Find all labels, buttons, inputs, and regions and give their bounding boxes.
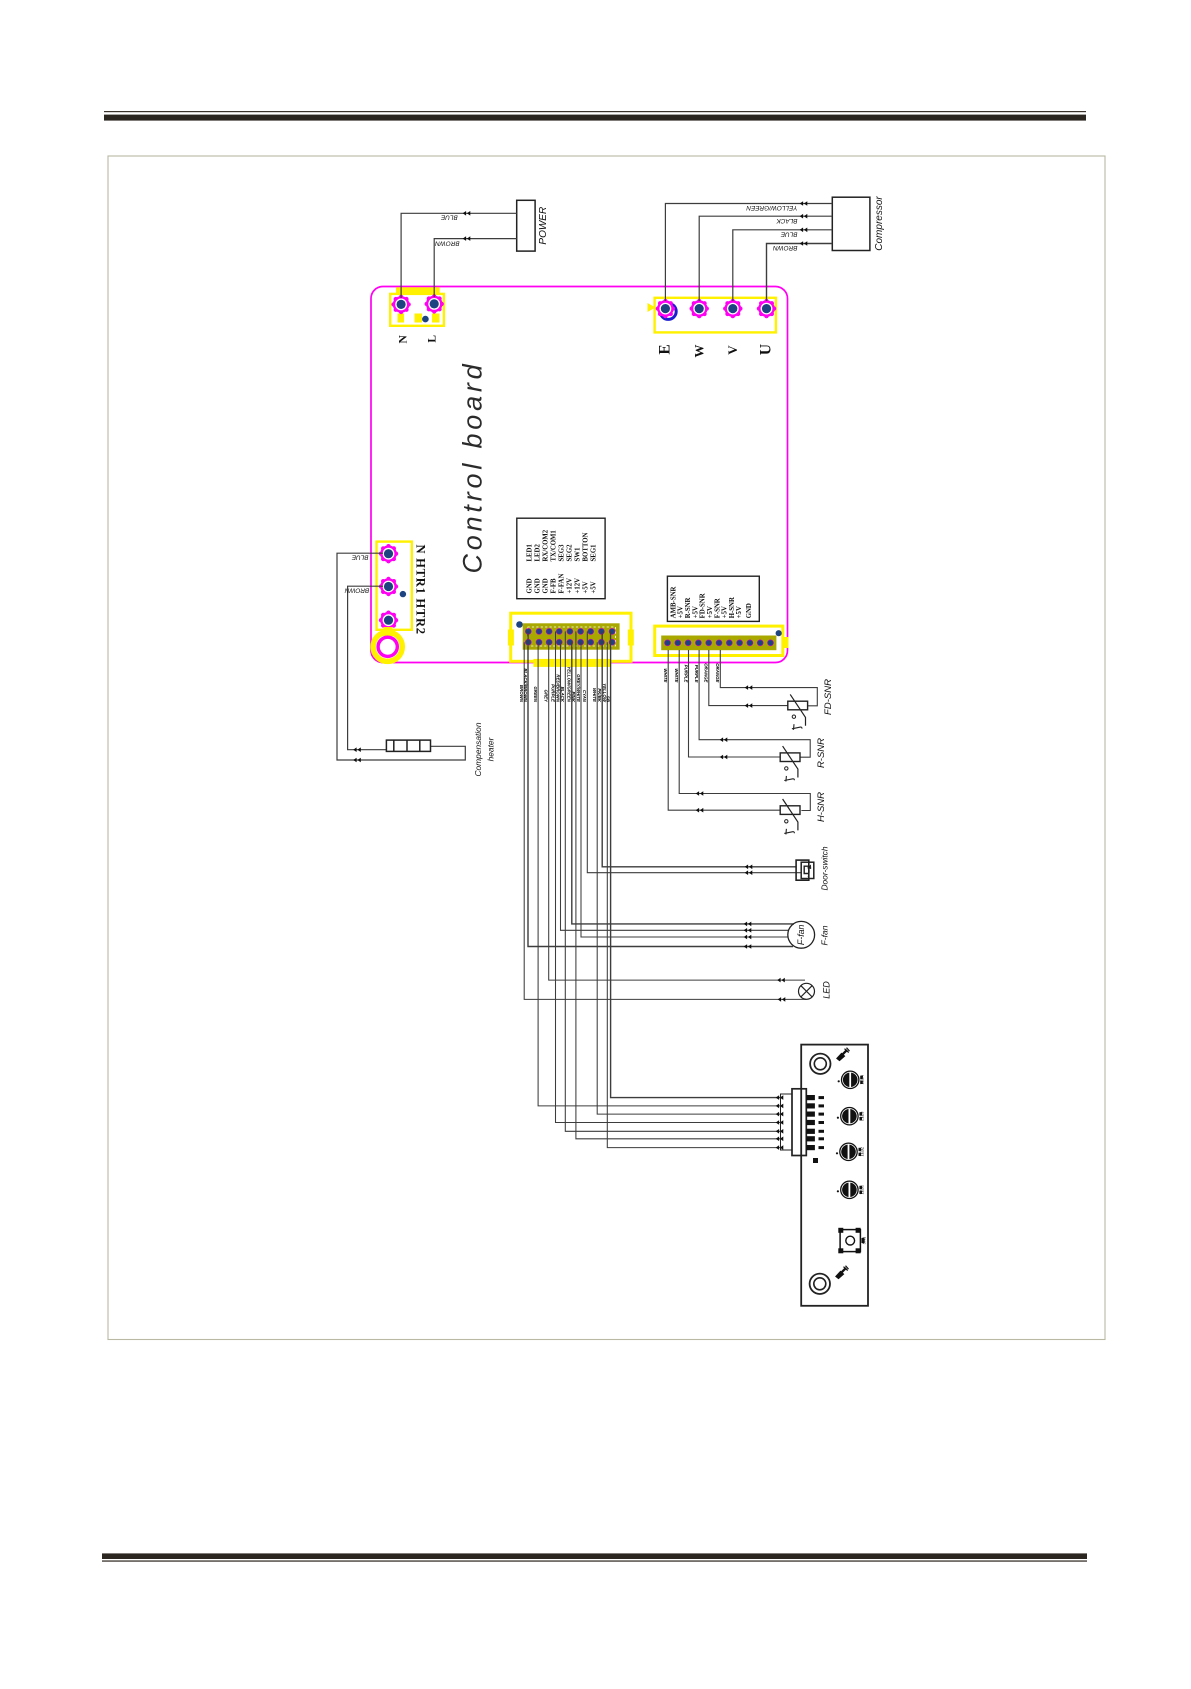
18-pin connector housing <box>533 659 610 667</box>
svg-text:E: E <box>656 344 673 354</box>
display LED2 <box>837 1108 862 1125</box>
svg-text:Door-switch: Door-switch <box>820 846 830 890</box>
svg-text:F-fan: F-fan <box>796 924 806 945</box>
svg-text:SEG2: SEG2 <box>567 544 574 562</box>
chevrons fan wires <box>744 922 752 927</box>
wire FD-SNR high (ORANGE) <box>720 650 817 706</box>
svg-text:+5V: +5V <box>692 606 699 618</box>
svg-text:Compensation: Compensation <box>473 722 483 776</box>
svg-text:F-fan: F-fan <box>820 925 830 945</box>
svg-text:H-SNR: H-SNR <box>729 597 736 618</box>
svg-text:R-SNR: R-SNR <box>685 597 692 618</box>
svg-text:PURPLE: PURPLE <box>683 665 688 684</box>
svg-text:LED2: LED2 <box>861 1147 865 1156</box>
svg-text:GREY: GREY <box>544 690 549 704</box>
wire N to POWER (BLUE) <box>401 213 517 298</box>
LED symbol <box>799 983 815 999</box>
wire disp6 (PINK) <box>576 631 782 1138</box>
svg-text:WHITE: WHITE <box>663 668 668 683</box>
pin table box <box>517 518 605 599</box>
svg-text:+5V: +5V <box>722 606 729 618</box>
wire led1 (GREY) <box>549 642 805 980</box>
wire V to compressor (BLUE) <box>733 230 833 301</box>
display LED4 <box>837 1181 862 1198</box>
svg-text:FD-SNR: FD-SNR <box>823 679 834 715</box>
svg-text:PINK: PINK <box>571 692 576 703</box>
chevrons display wires <box>776 1104 784 1109</box>
terminal L <box>425 294 444 313</box>
svg-text:PK/BK: PK/BK <box>597 688 602 702</box>
svg-text:CYAN: CYAN <box>582 690 587 703</box>
svg-text:L: L <box>427 335 439 343</box>
svg-text:AMB-SNR: AMB-SNR <box>671 586 678 618</box>
12-pin connector housing <box>783 637 789 648</box>
connector E/W/V/U housing <box>655 298 776 333</box>
yellow arrow marker <box>648 303 656 312</box>
svg-text:GND: GND <box>746 603 753 618</box>
svg-text:RED/BROWN: RED/BROWN <box>555 674 560 702</box>
svg-text:WHITE: WHITE <box>592 688 597 703</box>
terminal HTR1 <box>379 577 398 596</box>
svg-text:Compressor: Compressor <box>874 196 885 251</box>
svg-text:FD-SNR: FD-SNR <box>700 593 707 618</box>
svg-text:LED3: LED3 <box>861 1111 865 1120</box>
svg-text:+5V: +5V <box>591 581 598 593</box>
svg-text:RX/COM2: RX/COM2 <box>543 529 550 561</box>
svg-text:POWER: POWER <box>538 207 549 245</box>
wire disp2 (GREEN) <box>538 642 782 1106</box>
display LED1 <box>838 1071 863 1088</box>
svg-text:SW1: SW1 <box>863 1237 867 1245</box>
svg-text:SEG1: SEG1 <box>591 544 598 562</box>
svg-text:BROWN: BROWN <box>435 239 460 246</box>
compressor box <box>832 197 870 250</box>
wire H-SNR high (WHITE) <box>679 650 810 811</box>
wire R-SNR high (PURPLE) <box>699 650 810 757</box>
terminal V <box>723 299 742 318</box>
wire HTR-N to heater (BLUE) <box>337 553 465 760</box>
svg-text:+5V: +5V <box>707 606 714 618</box>
wire door2 (CYAN) <box>587 631 801 872</box>
svg-text:BLUE: BLUE <box>780 230 797 237</box>
wire L to POWER (BROWN) <box>434 239 517 297</box>
svg-text:PURPLE: PURPLE <box>550 684 555 703</box>
pins top row <box>525 628 532 635</box>
svg-text:BLACK/BROWN: BLACK/BROWN <box>523 668 528 702</box>
svg-text:TX/COM1: TX/COM1 <box>551 530 558 562</box>
svg-text:H-SNR: H-SNR <box>816 792 827 822</box>
terminal HTR N <box>379 544 398 563</box>
svg-text:N HTR1 HTR2: N HTR1 HTR2 <box>413 545 427 635</box>
blue ring on terminal E <box>660 303 676 319</box>
svg-text:GND: GND <box>543 578 550 593</box>
junction dot 18-pin <box>516 621 523 628</box>
thermistor R-SNR <box>780 746 800 781</box>
svg-text:LED1: LED1 <box>861 1185 865 1194</box>
wire fan2 (RED/BROWN) <box>561 642 789 930</box>
display connector housing <box>792 1089 806 1156</box>
terminal W <box>690 299 709 318</box>
svg-text:N: N <box>398 334 410 343</box>
wire disp5 (BLACK) <box>565 631 782 1131</box>
svg-text:+5V: +5V <box>678 606 685 618</box>
door-switch symbol <box>796 860 814 880</box>
wire H-SNR low (WHITE) <box>668 650 780 810</box>
mounting hole control board <box>373 632 402 661</box>
junction dot 12-pin <box>776 630 782 636</box>
wire fan4 (BLACK/BROWN) <box>528 631 793 946</box>
svg-text:LED: LED <box>822 981 832 999</box>
display LED3 <box>836 1143 861 1160</box>
svg-text:ORANGE: ORANGE <box>715 663 720 683</box>
wire disp3 (WHITE) <box>597 642 782 1114</box>
svg-text:U: U <box>758 344 775 355</box>
svg-text:LED2: LED2 <box>535 544 542 562</box>
svg-text:LED4: LED4 <box>861 1075 865 1084</box>
wire disp4 (PURPLE) <box>556 631 783 1122</box>
button SW <box>838 1228 864 1254</box>
svg-text:Control board: Control board <box>458 361 488 574</box>
terminal N <box>391 295 410 314</box>
connector N/L housing <box>396 287 440 294</box>
svg-text:+12V: +12V <box>575 578 582 594</box>
chevrons door-switch wires <box>745 865 753 870</box>
svg-text:LED1: LED1 <box>527 544 534 562</box>
svg-text:heater: heater <box>485 736 495 761</box>
pins sensor connector <box>664 640 671 647</box>
compensation heater element <box>386 740 430 751</box>
svg-text:BLACK: BLACK <box>560 687 565 703</box>
chevrons led wires <box>777 978 785 983</box>
thermistor H-SNR <box>780 799 800 834</box>
screw mark bottom <box>836 1266 849 1279</box>
junction dot on N/L connector <box>422 316 429 323</box>
display board outline <box>801 1045 868 1306</box>
svg-text:GREEN: GREEN <box>533 686 538 702</box>
wire door1 (PK/BK) <box>602 631 795 866</box>
F-fan symbol <box>788 921 815 948</box>
svg-text:PURPLE: PURPLE <box>694 665 699 684</box>
wire FD-SNR low (ORANGE) <box>709 650 788 706</box>
svg-text:YELLOW/GREEN: YELLOW/GREEN <box>746 204 798 211</box>
svg-text:F-FAN: F-FAN <box>559 574 566 594</box>
svg-text:WHITE: WHITE <box>674 668 679 683</box>
screw mark top <box>837 1048 850 1061</box>
svg-text:ORANGE: ORANGE <box>704 663 709 683</box>
sensor table box <box>667 576 759 621</box>
svg-text:W: W <box>691 345 706 358</box>
svg-text:F-SNR: F-SNR <box>714 598 721 618</box>
control board outline <box>371 287 788 663</box>
svg-text:SB: SB <box>606 696 611 703</box>
svg-text:SEG3: SEG3 <box>559 544 566 562</box>
svg-text:+5V: +5V <box>583 581 590 593</box>
connector HTR housing <box>377 542 412 630</box>
svg-text:V: V <box>725 345 740 355</box>
svg-text:R-SNR: R-SNR <box>816 738 827 768</box>
pins bottom row <box>525 639 532 646</box>
wire disp1 (SB) <box>611 631 782 1097</box>
wire fan3 (GREY/WHITE) <box>581 642 788 937</box>
terminal E <box>656 299 675 318</box>
wire U to compressor (BROWN) <box>767 244 833 302</box>
svg-text:GND: GND <box>527 578 534 593</box>
svg-text:BLACK: BLACK <box>776 217 798 224</box>
wire R-SNR low (PURPLE) <box>689 650 781 757</box>
terminal U <box>757 299 776 318</box>
svg-text:BROWN: BROWN <box>773 244 798 251</box>
svg-text:+5V: +5V <box>736 606 743 618</box>
wire led2 (BROWN) <box>524 642 806 999</box>
display connector pins <box>806 1095 815 1100</box>
svg-text:BOTTON: BOTTON <box>583 532 590 561</box>
svg-text:GND: GND <box>535 578 542 593</box>
POWER connector box <box>517 200 535 251</box>
svg-text:BLUE: BLUE <box>440 214 457 221</box>
svg-text:SW1: SW1 <box>575 547 582 562</box>
svg-text:BROWN: BROWN <box>344 587 369 594</box>
wire E to compressor (YELLOW/GREEN) <box>665 204 832 302</box>
mounting hole top <box>810 1054 830 1074</box>
terminal HTR2 <box>379 611 398 630</box>
thermistor FD-SNR <box>788 694 808 729</box>
svg-text:GREY/WHITE: GREY/WHITE <box>576 674 581 703</box>
svg-text:+12V: +12V <box>567 578 574 594</box>
wire HTR1 to heater (BROWN) <box>348 586 387 750</box>
wire W to compressor (BLACK) <box>699 216 832 301</box>
wire fan1 (YELLOW/GREEN) <box>572 642 794 924</box>
junction dot HTR <box>400 591 406 597</box>
svg-text:F-FB: F-FB <box>551 578 558 594</box>
svg-text:BLUE: BLUE <box>351 554 368 561</box>
wire disp7 (YELLOW) <box>607 642 782 1147</box>
mounting hole bottom <box>810 1274 830 1294</box>
